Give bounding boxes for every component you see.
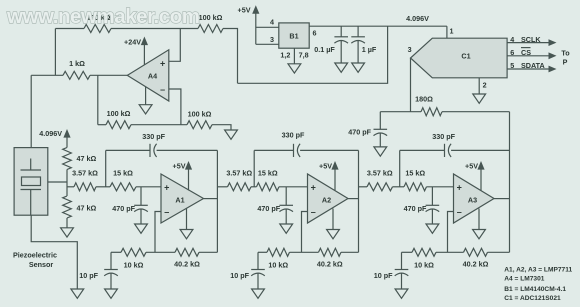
svg-text:6: 6 <box>313 29 317 38</box>
capacitor C 10pF (A1) <box>110 252 112 269</box>
resistor R 10k (A3) <box>412 248 436 256</box>
wire 15k to A1 + input <box>136 186 161 188</box>
ground under B1 <box>293 48 295 64</box>
svg-text:+: + <box>457 182 462 192</box>
svg-text:40.2 kΩ: 40.2 kΩ <box>463 260 489 269</box>
resistor R 47k upper <box>63 148 72 170</box>
svg-text:+5V: +5V <box>173 162 186 171</box>
svg-text:40.2 kΩ: 40.2 kΩ <box>174 260 200 269</box>
wire - input down (A1) <box>155 212 161 253</box>
svg-text:10 pF: 10 pF <box>79 271 98 280</box>
svg-text:–: – <box>164 207 169 217</box>
svg-text:+: + <box>160 58 165 68</box>
svg-text:Sensor: Sensor <box>29 260 54 269</box>
wire RC node to 180ohm <box>380 111 421 113</box>
svg-text:470 pF: 470 pF <box>348 128 371 137</box>
svg-text:0.1 µF: 0.1 µF <box>314 45 335 54</box>
wire C1 pin 6 CS output <box>507 55 550 57</box>
power 4.096V bias arrow <box>63 129 70 138</box>
wire 15k to A3 + input <box>427 186 454 188</box>
wire bottom left (A1) <box>111 251 121 253</box>
capacitor C 470pF (A3 input) <box>431 187 433 206</box>
svg-text:www.newmaker.com: www.newmaker.com <box>6 5 200 28</box>
svg-text:180Ω: 180Ω <box>415 94 433 103</box>
wire B1 pin 6 output rail 4.096V <box>309 25 447 27</box>
svg-text:+: + <box>164 182 169 192</box>
ground under 10pF (A3) <box>395 289 408 298</box>
crystal symbol inside sensor <box>30 159 32 171</box>
resistor R 47k lower <box>63 196 72 218</box>
ADC C1 body <box>411 38 508 78</box>
svg-text:3.57 kΩ: 3.57 kΩ <box>72 169 98 178</box>
svg-text:10 kΩ: 10 kΩ <box>414 260 434 269</box>
ground under 470pF (A3) <box>426 224 439 233</box>
svg-text:+24V: +24V <box>124 38 141 47</box>
wire 47k junction <box>66 170 68 197</box>
wire output vertical (A1) <box>216 150 218 252</box>
wire output (A1) <box>204 198 218 200</box>
wire B1 pin 4 <box>256 26 279 28</box>
wire input lead to stage A3 <box>359 186 368 188</box>
resistor R 180ohm <box>421 108 442 116</box>
resistor R 100k (bottom-left) <box>106 121 131 129</box>
svg-text:15 kΩ: 15 kΩ <box>258 169 278 178</box>
svg-text:C1: C1 <box>461 52 470 61</box>
wire feedback left (A1) <box>106 149 150 151</box>
svg-text:3.57 kΩ: 3.57 kΩ <box>226 169 252 178</box>
voltage reference B1 <box>279 23 309 48</box>
ground under 1uF <box>352 63 365 72</box>
svg-text:SDATA: SDATA <box>521 61 545 70</box>
wire A4 + input to top network <box>169 29 181 62</box>
svg-text:6: 6 <box>510 48 514 57</box>
svg-text:–: – <box>160 85 165 95</box>
svg-text:2: 2 <box>483 81 487 90</box>
ground under 470pF (A2) <box>280 224 293 233</box>
svg-text:100 kΩ: 100 kΩ <box>188 110 212 119</box>
svg-text:A1: A1 <box>175 195 184 204</box>
wire 1k to A4 output tip <box>90 74 128 76</box>
wire 40.2k to output vertical (A2) <box>341 251 359 253</box>
capacitor C 330pF (A3 feedback) <box>444 144 446 157</box>
wire output (A2) <box>348 198 359 200</box>
resistor R 40.2k (A2) <box>319 248 342 256</box>
resistor R 15k (A2 stage) <box>257 183 280 191</box>
svg-text:A3: A3 <box>468 195 477 204</box>
wire C1 pin 1 from 4.096V rail <box>446 26 448 38</box>
wire bottom left (A2) <box>258 251 267 253</box>
power +5V for A2 <box>331 161 338 170</box>
wire 47k to ground <box>66 218 68 228</box>
wire C1 pin 3 down <box>410 58 412 112</box>
capacitor C 470pF (A2 input) <box>285 187 287 206</box>
ground under A1 <box>186 209 188 230</box>
resistor R 15k (A3 stage) <box>404 183 427 191</box>
wire between bottom 100k resistors <box>131 124 187 126</box>
wire 180ohm to A3 output vertical <box>442 111 510 113</box>
wire left vertical from top wire <box>54 29 56 76</box>
ground at A4 bottom network <box>225 130 238 139</box>
svg-text:–: – <box>457 207 462 217</box>
wire output (A3) <box>494 198 510 200</box>
wire long run to 4.096V rail <box>238 26 388 83</box>
resistor R 3.57k (A2 stage) <box>228 183 252 191</box>
resistor R 1k <box>63 71 90 79</box>
svg-text:B1: B1 <box>289 32 298 41</box>
capacitor C 330pF (A1 feedback) <box>149 144 151 157</box>
svg-text:+5V: +5V <box>465 162 478 171</box>
svg-text:3: 3 <box>408 45 412 54</box>
ground under 470pF (A1) <box>135 224 148 233</box>
wire feedback right (A1) <box>157 149 218 151</box>
svg-text:5: 5 <box>510 61 514 70</box>
power +5V for A3 <box>477 161 484 170</box>
svg-text:A1, A2, A3 = LMP7711: A1, A2, A3 = LMP7711 <box>504 267 572 274</box>
wire C1 pin 5 SDATA output <box>507 68 550 70</box>
svg-text:+5V: +5V <box>238 6 251 15</box>
svg-text:15 kΩ: 15 kΩ <box>405 169 425 178</box>
resistor R 10k (A2) <box>267 248 290 256</box>
svg-text:1: 1 <box>450 27 454 36</box>
ground under A3 <box>478 209 480 230</box>
capacitor C 330pF (A2 feedback) <box>293 144 295 157</box>
capacitor C 0.1uF <box>340 26 342 37</box>
wire A4 - input to bottom network <box>169 89 181 125</box>
wire C1 pin 4 SCLK output <box>507 42 550 44</box>
svg-text:4.096V: 4.096V <box>406 14 429 23</box>
resistor R 15k (A1 stage) <box>110 183 136 191</box>
svg-text:47 kΩ: 47 kΩ <box>77 204 97 213</box>
svg-text:330 pF: 330 pF <box>432 132 455 141</box>
wire lower-left lead <box>98 124 106 126</box>
svg-text:4: 4 <box>270 17 274 26</box>
svg-text:CS: CS <box>521 48 531 57</box>
wire A4 output left segment <box>31 74 63 76</box>
svg-text:100 kΩ: 100 kΩ <box>199 13 223 22</box>
wire 15k to A2 + input <box>279 186 308 188</box>
svg-text:1,2: 1,2 <box>280 51 290 60</box>
wire 40.2k to output vertical (A1) <box>199 251 217 253</box>
svg-text:47 kΩ: 47 kΩ <box>77 154 97 163</box>
capacitor C 470pF at ADC input <box>379 112 381 130</box>
wire piezo to ground <box>31 215 77 289</box>
svg-text:B1 = LM4140CM-4.1: B1 = LM4140CM-4.1 <box>504 286 566 293</box>
resistor R 40.2k (A3) <box>464 248 488 256</box>
svg-text:–: – <box>311 207 316 217</box>
wire feedback vertical (A2) <box>253 150 255 186</box>
svg-text:A4: A4 <box>148 71 157 80</box>
piezoelectric sensor box <box>14 148 48 216</box>
power +5V for A1 <box>185 161 192 170</box>
resistor R 100k (top-right) <box>198 25 223 33</box>
svg-text:A2: A2 <box>322 195 331 204</box>
svg-text:330 pF: 330 pF <box>142 132 165 141</box>
power +5V for B1 <box>252 5 259 14</box>
svg-text:A4 = LM7301: A4 = LM7301 <box>504 276 544 283</box>
svg-text:To: To <box>561 48 570 57</box>
svg-text:3: 3 <box>270 35 274 44</box>
wire output vertical (A3) up to ADC RC <box>509 112 511 253</box>
wire - input down (A2) <box>302 212 308 253</box>
wire top-right corner down to 4.096V run <box>223 29 238 84</box>
svg-text:330 pF: 330 pF <box>282 131 305 140</box>
svg-text:1 kΩ: 1 kΩ <box>69 59 85 68</box>
wire between top 100k resistors <box>111 28 198 30</box>
svg-text:10 kΩ: 10 kΩ <box>268 260 288 269</box>
ground under 10pF (A2) <box>252 289 265 298</box>
wire top feedback from node to A4 + network <box>55 28 84 30</box>
wire feedback left (A3) <box>400 149 445 151</box>
wire piezo output <box>48 181 67 183</box>
op-amp U A2 <box>308 174 349 223</box>
wire input lead to stage A1 <box>67 186 74 188</box>
svg-text:+5V: +5V <box>319 162 332 171</box>
wire bottom 100k to ground <box>212 125 231 130</box>
wire down to piezo top <box>30 75 32 147</box>
svg-text:P: P <box>563 58 568 67</box>
wire 3.57k to 15k (A3) <box>393 186 405 188</box>
wire 10k to 40.2k (A3) <box>436 251 464 253</box>
svg-text:+: + <box>311 182 316 192</box>
svg-text:4: 4 <box>510 35 514 44</box>
wire B1 pin 3 <box>256 43 279 45</box>
ground for piezo <box>71 289 84 298</box>
svg-text:470 pF: 470 pF <box>404 204 427 213</box>
wire C1 pin 2 to ground <box>478 78 480 94</box>
resistor R 100k (top-left) <box>84 25 111 33</box>
svg-text:10 kΩ: 10 kΩ <box>124 260 144 269</box>
svg-text:10 pF: 10 pF <box>230 271 249 280</box>
svg-text:15 kΩ: 15 kΩ <box>113 169 133 178</box>
ground under ADC 470pF <box>374 147 387 156</box>
resistor R 40.2k (A1) <box>175 248 199 256</box>
wire feedback right (A2) <box>300 149 358 151</box>
svg-text:SCLK: SCLK <box>521 35 541 44</box>
power +24V for A4 <box>141 37 148 46</box>
svg-text:C1 = ADC121S021: C1 = ADC121S021 <box>504 295 561 302</box>
wire feedback vertical (A3) <box>399 150 401 186</box>
capacitor C 1uF <box>357 26 359 37</box>
wire 3.57k to 15k (A2) <box>251 186 257 188</box>
wire feedback right (A3) <box>451 149 509 151</box>
wire feedback left (A2) <box>254 149 293 151</box>
wire - input down (A3) <box>448 212 454 253</box>
svg-text:10 pF: 10 pF <box>374 271 393 280</box>
resistor R 100k (bottom-right) <box>187 121 212 129</box>
svg-text:3.57 kΩ: 3.57 kΩ <box>367 169 393 178</box>
resistor R 10k (A1) <box>121 248 146 256</box>
svg-text:7,8: 7,8 <box>299 51 309 60</box>
wire feedback vertical to lower 100k <box>97 75 99 124</box>
ground under A4 <box>145 87 147 105</box>
resistor R 3.57k (A1 stage) <box>74 183 96 191</box>
op-amp U A3 <box>454 174 495 223</box>
wire 3.57k to 15k (A1) <box>96 186 110 188</box>
capacitor C 10pF (A3) <box>401 252 403 269</box>
wire 10k to 40.2k (A2) <box>290 251 319 253</box>
svg-text:100 kΩ: 100 kΩ <box>107 109 131 118</box>
wire output vertical (A2) <box>358 150 360 252</box>
svg-text:470 pF: 470 pF <box>112 204 135 213</box>
ground under A2 <box>332 209 334 230</box>
svg-text:4.096V: 4.096V <box>39 129 62 138</box>
wire input lead to stage A2 <box>217 186 227 188</box>
ground under 0.1uF <box>335 63 348 72</box>
wire bottom left (A3) <box>402 251 413 253</box>
wire feedback vertical (A1) <box>105 150 107 186</box>
op-amp U A1 <box>161 174 204 223</box>
svg-text:Piezoelectric: Piezoelectric <box>13 251 57 260</box>
ground under 10pF (A1) <box>105 289 118 298</box>
capacitor C 10pF (A2) <box>257 252 259 269</box>
svg-text:470 pF: 470 pF <box>257 204 280 213</box>
svg-text:40.2 kΩ: 40.2 kΩ <box>317 260 343 269</box>
wire 10k to 40.2k (A1) <box>146 251 175 253</box>
ground under 47k <box>61 228 74 237</box>
capacitor C 470pF (A1 input) <box>140 187 142 206</box>
wire 40.2k to output vertical (A3) <box>488 251 510 253</box>
ground under C1 pin 2 <box>473 94 486 103</box>
op-amp U A4 (left pointing) <box>127 50 169 101</box>
svg-text:1 µF: 1 µF <box>362 45 377 54</box>
resistor R 3.57k (A3 stage) <box>367 183 393 191</box>
